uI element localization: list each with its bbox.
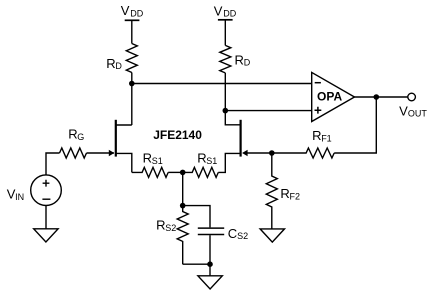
svg-text:R: R (312, 128, 321, 143)
resistor RF2 label (280, 186, 300, 201)
source VIN label (7, 187, 24, 202)
op-amp OPA label (317, 90, 342, 104)
node bottom junction dot (207, 261, 213, 267)
terminal VOUT open circle (408, 93, 416, 101)
source VIN circle (31, 175, 62, 206)
transistor Q1 drain lead (116, 124, 132, 126)
node center source junction dot (180, 170, 186, 176)
node output junction dot (374, 94, 380, 100)
svg-text:S2: S2 (165, 223, 176, 233)
svg-text:V: V (214, 4, 223, 19)
transistor Q2 channel bar (240, 120, 242, 157)
wire RD2 bottom to Q2 drain node (224, 73, 226, 111)
svg-text:OPA: OPA (317, 90, 342, 104)
resistor RS1 (right) label (197, 151, 217, 166)
resistor RS1 (right) body (183, 167, 219, 177)
wire VDD right to RD2 (224, 20, 226, 46)
svg-text:S1: S1 (206, 156, 217, 166)
svg-text:R: R (68, 127, 77, 142)
resistor RD (right) label (235, 52, 251, 67)
power VDD (left) label (121, 3, 144, 18)
svg-text:R: R (280, 186, 289, 201)
ground below RF2 (260, 229, 284, 242)
resistor RF1 body (272, 148, 334, 158)
svg-text:G: G (77, 132, 84, 142)
svg-text:DD: DD (130, 8, 143, 18)
wire RS1 right to Q2 source (218, 153, 240, 172)
wire bottom node to ground (209, 264, 211, 276)
power VDD (right) label (214, 4, 237, 19)
svg-text:S2: S2 (237, 231, 248, 241)
wire CS2 bottom lead (209, 235, 211, 264)
wire VDD left to RD1 (131, 20, 133, 43)
node drain Q1 junction dot (129, 81, 135, 87)
capacitor CS2 bottom plate (198, 234, 224, 236)
transistor Q1 gate arrow (109, 150, 115, 157)
resistor RS2 label (156, 218, 176, 233)
source VIN minus sign (42, 198, 50, 200)
wire center node down (182, 172, 184, 205)
op-amp noninverting input plus sign (315, 107, 322, 114)
wire Q2 gate to feedback node (244, 152, 272, 154)
svg-text:F2: F2 (290, 191, 301, 201)
transistor Q2 gate arrow (242, 150, 248, 157)
op-amp inverting input minus sign (315, 82, 321, 84)
capacitor CS2 top plate (198, 227, 224, 229)
resistor RF2 body (266, 153, 277, 229)
svg-text:R: R (197, 151, 206, 166)
resistor RS1 (left) label (143, 151, 163, 166)
node drain Q2 junction dot (223, 108, 229, 114)
label JFE2140 (153, 128, 202, 142)
wire RD1 bottom through node to drain (131, 73, 133, 126)
resistor RD (left) body (126, 44, 137, 73)
wire VIN to ground (45, 206, 47, 229)
svg-text:OUT: OUT (408, 109, 428, 119)
wire op-amp output (355, 96, 408, 98)
svg-text:F1: F1 (321, 133, 332, 143)
power VDD (right) rail bar (218, 19, 233, 21)
label VOUT (399, 103, 427, 118)
resistor RD (right) body (220, 45, 231, 73)
transistor Q1 source lead (116, 153, 132, 172)
wire VIN to RG (46, 153, 60, 175)
svg-text:V: V (121, 3, 130, 18)
resistor RG body (60, 148, 87, 158)
power VDD (left) rail bar (125, 19, 140, 21)
svg-text:D: D (115, 61, 122, 71)
svg-text:DD: DD (223, 9, 236, 19)
svg-text:R: R (156, 218, 165, 233)
svg-text:D: D (244, 58, 251, 68)
wire RS2 bottom to node (183, 263, 210, 265)
svg-text:V: V (399, 103, 408, 118)
resistor RS1 (left) body (132, 167, 168, 177)
source VIN plus sign (43, 180, 50, 187)
ground below CS2 (198, 276, 222, 289)
transistor Q2 drain lead (225, 111, 240, 125)
svg-text:JFE2140: JFE2140 (153, 128, 202, 142)
node feedback junction dot (269, 150, 275, 156)
resistor RS2 body (177, 206, 188, 265)
resistor RD (left) label (106, 56, 122, 71)
op-amp OPA triangle (312, 72, 355, 121)
svg-text:C: C (228, 226, 237, 241)
wire RG to Q1 gate (87, 152, 115, 154)
svg-text:S1: S1 (152, 156, 163, 166)
wire RS1 left to center node (168, 171, 183, 173)
wire RF1 to output node (334, 97, 376, 153)
svg-text:IN: IN (15, 192, 24, 202)
wire CS2 top branch (183, 206, 210, 228)
svg-text:R: R (143, 151, 152, 166)
capacitor CS2 label (228, 226, 248, 241)
node RS2 CS2 top junction dot (180, 203, 186, 209)
wire inverting input line (132, 83, 312, 85)
transistor Q1 channel bar (115, 120, 117, 157)
svg-text:R: R (235, 52, 244, 67)
resistor RF1 label (312, 128, 332, 143)
resistor RG label (68, 127, 84, 142)
svg-text:R: R (106, 56, 115, 71)
ground below VIN (34, 229, 58, 242)
wire noninverting input line (225, 110, 311, 112)
